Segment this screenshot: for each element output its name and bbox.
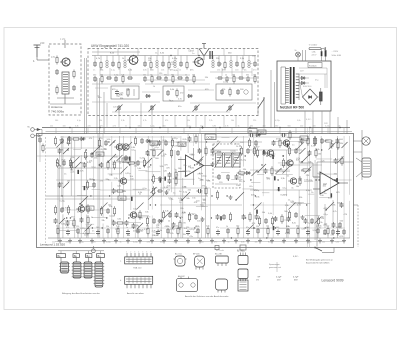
capacitor electrolytic — [273, 226, 275, 230]
capacitor C43 — [114, 74, 120, 82]
svg-text:5,6k: 5,6k — [297, 120, 301, 122]
svg-text:6,8k: 6,8k — [213, 125, 217, 127]
svg-text:4,7k: 4,7k — [178, 98, 182, 100]
label value — [181, 146, 186, 148]
capacitor electrolytic — [131, 197, 133, 201]
label value — [275, 171, 280, 173]
label value — [191, 154, 195, 156]
label value — [100, 181, 104, 183]
label value — [296, 158, 301, 160]
switch lever — [297, 143, 304, 150]
label value — [340, 221, 344, 223]
label value — [222, 70, 226, 72]
capacitor electrolytic — [77, 170, 79, 174]
svg-text:4,7µF: 4,7µF — [293, 277, 299, 279]
label value — [199, 179, 203, 181]
svg-text:0,22µ: 0,22µ — [66, 143, 72, 145]
svg-text:5,6k: 5,6k — [206, 226, 210, 228]
ground — [186, 239, 190, 243]
label value — [108, 180, 111, 182]
wire — [82, 186, 92, 188]
label value — [210, 155, 214, 157]
label value — [192, 214, 195, 216]
label value — [140, 230, 145, 232]
label value — [300, 71, 319, 82]
component cluster 24 — [112, 188, 125, 194]
label value — [190, 168, 195, 170]
svg-text:560: 560 — [275, 125, 278, 127]
label value — [99, 138, 103, 140]
label value — [213, 151, 219, 153]
capacitor C58 — [246, 74, 250, 82]
svg-text:15k: 15k — [217, 70, 220, 72]
wire — [280, 164, 322, 166]
node — [128, 217, 129, 218]
switch lever — [91, 146, 100, 155]
caption — [127, 292, 145, 295]
svg-text:260: 260 — [123, 159, 128, 163]
label value — [71, 217, 75, 219]
wire — [102, 134, 104, 217]
wire — [176, 178, 194, 180]
wire — [122, 136, 124, 238]
label DC30 — [205, 134, 216, 140]
ground — [222, 239, 226, 243]
wire — [46, 198, 130, 200]
tuned circuit box L2 — [111, 86, 139, 99]
label value — [344, 214, 348, 216]
wire — [309, 128, 311, 248]
svg-text:47n: 47n — [246, 227, 249, 229]
switch lever — [247, 225, 254, 232]
label value — [187, 242, 190, 244]
transistor T2 — [127, 56, 138, 65]
svg-text:220: 220 — [88, 125, 91, 127]
label value — [112, 164, 116, 166]
label value — [182, 234, 186, 236]
svg-text:33k: 33k — [309, 242, 312, 244]
switch lever — [107, 154, 116, 163]
node — [283, 155, 284, 156]
label value — [268, 213, 273, 215]
wire — [241, 68, 243, 76]
svg-text:470: 470 — [174, 242, 177, 244]
label value — [163, 171, 167, 173]
ground — [78, 239, 82, 243]
wire — [95, 88, 214, 92]
wire — [210, 136, 300, 138]
label value — [240, 58, 245, 60]
svg-text:8,2k: 8,2k — [170, 64, 174, 66]
label value — [168, 198, 173, 200]
svg-text:0,22µ: 0,22µ — [285, 233, 291, 235]
svg-text:220: 220 — [200, 125, 203, 127]
svg-text:8,2k: 8,2k — [119, 94, 123, 96]
wire — [186, 116, 188, 128]
ground — [90, 239, 94, 243]
label value — [311, 146, 316, 148]
label value — [101, 220, 105, 222]
svg-text:Ansicht von oben: Ansicht von oben — [127, 292, 145, 295]
wire — [220, 227, 345, 229]
label value — [114, 178, 119, 180]
label value — [127, 235, 131, 237]
label value — [214, 242, 217, 244]
label value — [178, 198, 183, 200]
inductor L11 — [174, 56, 176, 68]
wire — [231, 179, 242, 181]
package header 3 — [86, 254, 92, 262]
connector X2 — [353, 137, 370, 145]
node — [305, 227, 306, 228]
label value — [134, 166, 138, 168]
component cluster 56 — [168, 176, 178, 186]
label value — [89, 179, 93, 181]
wire — [160, 204, 242, 206]
wire — [174, 150, 176, 196]
label value — [189, 236, 193, 238]
label value — [252, 223, 256, 225]
svg-text:1k: 1k — [226, 226, 228, 228]
wire — [298, 142, 300, 184]
label Netzteil RF 500 — [280, 106, 304, 110]
label value — [170, 64, 174, 66]
label value — [52, 242, 55, 244]
wire — [278, 162, 290, 164]
boxed label — [86, 206, 94, 211]
label value — [195, 226, 199, 228]
label value — [98, 97, 102, 99]
wire — [293, 203, 311, 205]
wire — [129, 68, 131, 76]
resistor R59 — [253, 74, 256, 83]
wire — [167, 128, 169, 135]
switch lever — [235, 192, 244, 201]
IC package U4 bottom view — [120, 276, 153, 288]
node — [300, 179, 301, 180]
component cluster 52 — [216, 190, 232, 200]
node — [67, 149, 68, 150]
label value — [80, 170, 85, 172]
svg-text:47n: 47n — [56, 226, 59, 228]
wire — [60, 209, 110, 211]
node — [66, 217, 67, 218]
label Lenacord 9009 — [322, 279, 344, 283]
label value — [160, 53, 165, 55]
wire — [262, 192, 269, 194]
label value — [225, 125, 229, 127]
wire — [162, 116, 164, 128]
label value — [253, 120, 256, 122]
capacitor electrolytic — [336, 178, 338, 182]
label value — [136, 215, 140, 217]
component cluster 6 — [66, 218, 76, 228]
svg-text:0,22µ: 0,22µ — [241, 160, 247, 162]
wire — [242, 173, 244, 238]
wire — [279, 128, 281, 135]
label value — [291, 188, 294, 190]
label value — [178, 98, 182, 100]
ground — [68, 239, 72, 243]
label value — [150, 149, 154, 151]
capacitor electrolytic — [331, 193, 333, 197]
svg-text:0,22µ: 0,22µ — [186, 171, 192, 173]
component cluster 22 — [188, 212, 204, 222]
wire — [285, 150, 287, 196]
svg-text:Ansicht der Gehäuse von der An: Ansicht der Gehäuse von der Anschlusssei… — [185, 295, 229, 298]
transformer TR2 — [285, 67, 299, 104]
label value — [324, 223, 328, 225]
component cluster 51 — [216, 212, 232, 222]
capacitor C62 — [106, 76, 112, 80]
svg-text:0,22µ: 0,22µ — [230, 150, 236, 152]
ground — [342, 239, 346, 243]
label value — [205, 77, 208, 79]
resistor bottom row — [146, 226, 149, 239]
svg-text:7: 7 — [150, 251, 151, 253]
label value — [163, 125, 166, 127]
label value — [63, 125, 66, 127]
wire — [180, 136, 182, 151]
wire — [55, 241, 345, 243]
label value — [106, 242, 112, 244]
svg-text:220: 220 — [300, 125, 303, 127]
resistor R56 — [232, 74, 235, 83]
svg-text:1k: 1k — [155, 53, 157, 55]
wire — [257, 108, 259, 116]
resistor bottom row — [206, 226, 210, 239]
label value — [256, 197, 261, 199]
component cluster 53 — [58, 148, 70, 154]
node — [102, 227, 103, 228]
capacitor bottom row — [186, 227, 190, 236]
svg-text:0,22µ: 0,22µ — [172, 58, 178, 60]
capacitor bottom row — [76, 226, 80, 238]
label value — [63, 207, 68, 209]
label value — [318, 225, 322, 227]
label value — [131, 147, 136, 149]
label value — [339, 205, 344, 207]
trimmer C20 — [116, 105, 123, 116]
label value — [55, 120, 58, 122]
component cluster 32 — [272, 138, 290, 148]
svg-text:1k: 1k — [179, 70, 181, 72]
label value — [67, 209, 72, 211]
svg-text:33k: 33k — [164, 74, 167, 76]
capacitor bottom row — [126, 227, 130, 236]
label value — [133, 208, 137, 210]
label value — [156, 225, 160, 227]
label value — [138, 125, 141, 127]
component cluster 43 — [281, 130, 292, 140]
wire — [251, 182, 260, 184]
wire — [304, 111, 306, 134]
label value — [182, 213, 187, 215]
svg-text:220 V: 220 V — [312, 55, 318, 57]
wire — [283, 140, 302, 142]
label value — [99, 120, 102, 122]
ground — [246, 239, 250, 243]
label value — [59, 140, 63, 142]
label value — [152, 230, 157, 232]
label value — [174, 169, 177, 171]
svg-text:15k: 15k — [148, 60, 151, 62]
wire — [75, 251, 77, 254]
label value — [186, 171, 192, 173]
label value — [151, 145, 155, 147]
component cluster 8 — [100, 160, 116, 170]
fuse F2 — [309, 48, 326, 51]
node — [93, 179, 94, 180]
svg-text:47n: 47n — [100, 125, 103, 127]
wire — [145, 79, 205, 81]
label value — [119, 162, 122, 164]
label value — [163, 140, 168, 142]
capacitor C49 — [164, 74, 168, 82]
label value — [252, 151, 256, 153]
label value — [215, 162, 219, 164]
wire — [139, 215, 149, 217]
label value — [175, 216, 180, 218]
wire — [243, 49, 245, 56]
label value — [338, 147, 341, 149]
label value — [337, 203, 341, 205]
component cluster 58 — [197, 186, 208, 196]
screw hole — [92, 246, 96, 253]
svg-text:10k: 10k — [282, 242, 285, 244]
switch lever — [231, 137, 238, 144]
label value — [338, 125, 341, 127]
wire — [275, 171, 284, 173]
wire — [246, 149, 302, 151]
wire — [177, 68, 179, 76]
label value — [285, 233, 291, 235]
label value — [108, 204, 112, 206]
node — [99, 127, 101, 129]
label value — [112, 89, 116, 91]
wire — [257, 174, 264, 176]
svg-text:Netzteil RF 500: Netzteil RF 500 — [280, 106, 304, 110]
node — [245, 155, 246, 156]
wire — [306, 128, 308, 168]
label value — [295, 242, 298, 244]
label value — [313, 140, 318, 142]
svg-text:6,8k: 6,8k — [241, 242, 245, 244]
label value — [64, 174, 67, 176]
main chassis box — [37, 134, 354, 248]
wire — [348, 136, 350, 195]
wire — [70, 140, 72, 196]
capacitor bottom row — [246, 227, 250, 236]
svg-text:1k: 1k — [120, 242, 122, 244]
label value — [317, 228, 322, 230]
wire — [263, 128, 265, 135]
node — [231, 237, 232, 238]
wire — [192, 134, 194, 146]
node — [306, 204, 307, 205]
resistor bottom row — [326, 226, 329, 239]
label value — [77, 120, 82, 122]
component cluster 23 — [152, 186, 163, 196]
svg-text:1n: 1n — [126, 227, 128, 229]
switch S1 — [258, 98, 265, 129]
wire — [106, 116, 108, 128]
svg-text:DC30: DC30 — [207, 135, 215, 139]
feedback resistor R90 — [300, 163, 313, 177]
wire — [343, 128, 345, 135]
wire — [71, 128, 73, 135]
component cluster 40 — [332, 222, 343, 228]
wire — [58, 150, 60, 238]
label value — [60, 200, 66, 202]
capacitor C52 — [185, 74, 189, 82]
label cap2 — [293, 277, 299, 282]
capacitor electrolytic — [84, 186, 86, 190]
wire — [99, 78, 101, 134]
label value — [268, 242, 272, 244]
wire — [151, 128, 153, 135]
node — [316, 149, 317, 150]
label value — [256, 146, 260, 148]
label value — [125, 125, 127, 127]
label value — [244, 70, 247, 72]
label value — [94, 158, 98, 160]
label value — [323, 208, 328, 210]
label value — [250, 63, 253, 65]
svg-text:0,22µ: 0,22µ — [60, 200, 66, 202]
diode D21 — [300, 81, 309, 84]
label value — [275, 125, 278, 127]
svg-text:560: 560 — [288, 125, 291, 127]
label value — [329, 147, 333, 149]
svg-text:220: 220 — [253, 120, 256, 122]
label value — [143, 120, 147, 122]
switch lever — [73, 157, 80, 164]
wire — [231, 68, 233, 76]
label value — [199, 193, 203, 195]
node — [189, 127, 191, 129]
label value — [281, 194, 286, 196]
label value — [140, 157, 146, 159]
node — [194, 164, 195, 165]
label value — [201, 206, 205, 208]
node — [172, 227, 173, 228]
inductor L20 — [248, 56, 250, 68]
wire — [60, 136, 180, 138]
svg-text:6,3V~: 6,3V~ — [306, 119, 312, 121]
label value — [328, 198, 333, 200]
capacitor C40 — [93, 74, 97, 82]
label value — [308, 161, 312, 163]
resistor R14 — [168, 56, 170, 70]
label value — [173, 178, 178, 180]
wire — [80, 155, 82, 238]
label value — [215, 177, 220, 179]
svg-text:2,2k: 2,2k — [209, 120, 213, 122]
svg-text:560: 560 — [276, 227, 279, 229]
svg-text:0,22µ: 0,22µ — [201, 175, 207, 177]
package header 2 — [73, 254, 79, 262]
label value — [287, 176, 290, 178]
switch lever — [165, 211, 172, 218]
svg-text:560: 560 — [93, 74, 96, 76]
label Antenne 740.909a — [50, 104, 80, 113]
label value — [169, 199, 174, 201]
node — [228, 179, 229, 180]
label value — [202, 185, 206, 187]
wire — [251, 68, 253, 76]
wire — [276, 174, 293, 176]
